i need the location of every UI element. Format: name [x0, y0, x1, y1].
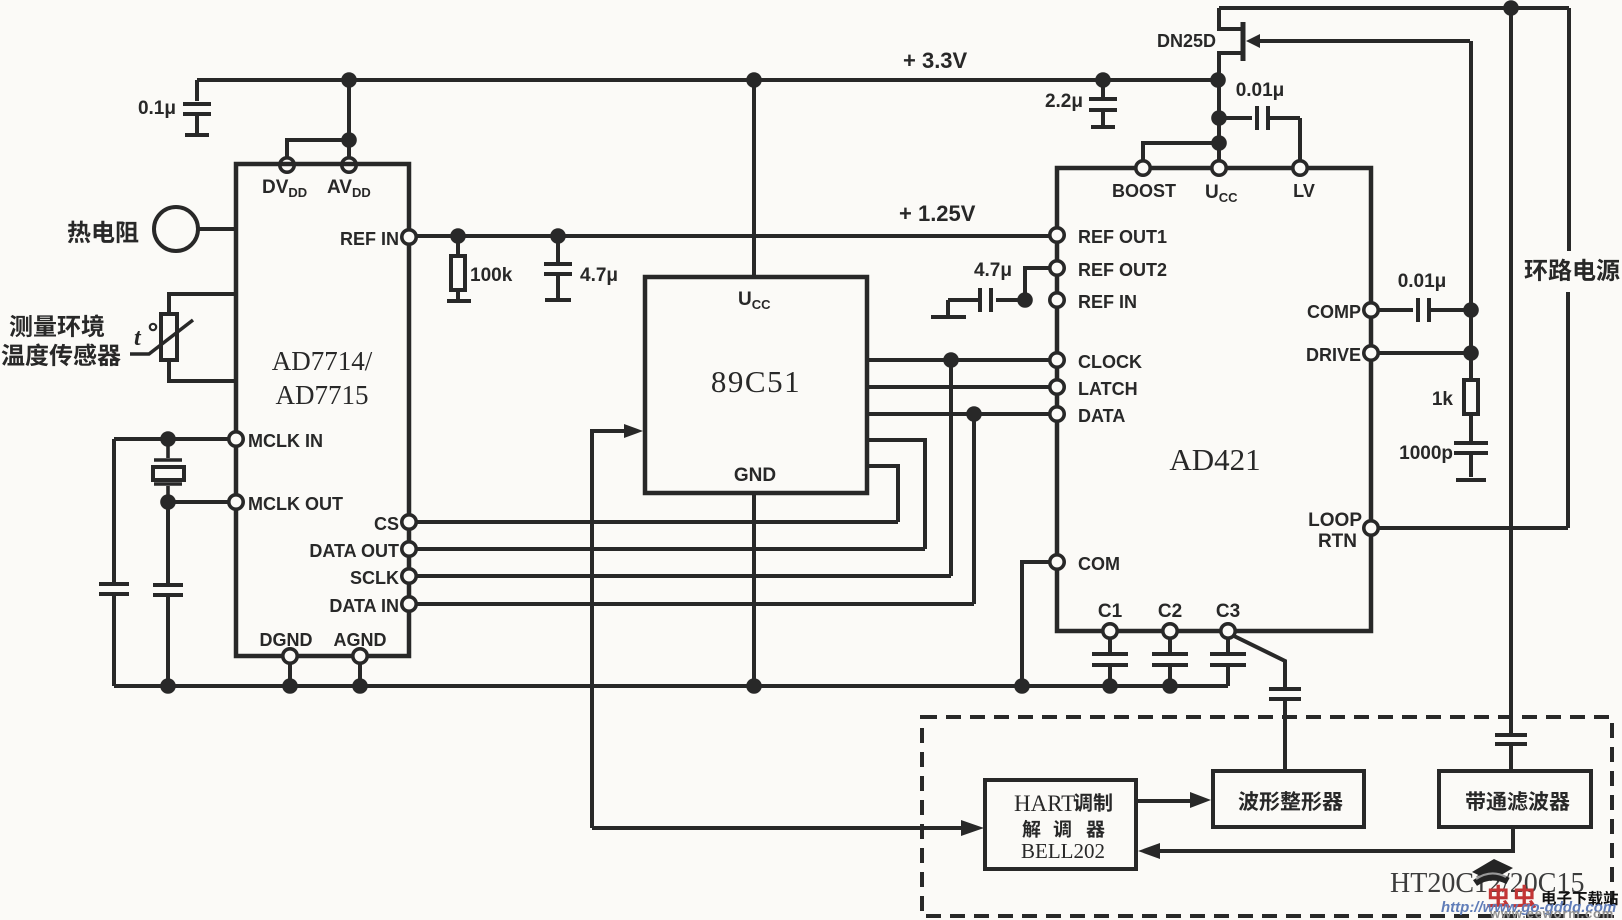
svg-text:BOOST: BOOST: [1112, 181, 1176, 201]
arrowhead into waveshaper: [1190, 792, 1211, 808]
capacitor right load cap: [153, 502, 183, 686]
wire REF OUT2 bracket: [1025, 268, 1050, 300]
svg-text:1000p: 1000p: [1399, 443, 1453, 464]
wire +1.25V reference row: [417, 234, 1050, 238]
wire AGND stub: [358, 664, 362, 686]
pin DGND: [283, 649, 297, 663]
IC 89C51 box: [645, 277, 867, 493]
junction 3.3V/2.2u: [1095, 72, 1111, 88]
svg-text:HART: HART: [1014, 791, 1075, 816]
pin C2: [1163, 624, 1177, 638]
capacitor 0.1u with ground: [183, 80, 211, 135]
pin DVDD: [280, 158, 294, 172]
dashed HART block: [922, 717, 1612, 916]
capacitor 4.7u REF IN with ground: [931, 288, 1025, 317]
pin Ucc AD421: [1212, 161, 1226, 175]
wire MCLK IN: [114, 437, 228, 441]
svg-text:0.1μ: 0.1μ: [138, 98, 176, 119]
wire 89C51 to CS: [867, 466, 898, 522]
svg-text:RTN: RTN: [1318, 531, 1357, 552]
junction gnd COM: [1014, 678, 1030, 694]
label 带通滤波器: [1466, 791, 1570, 811]
thermistor diagonal: [130, 320, 193, 354]
junction gnd C1: [1102, 678, 1118, 694]
junction 3.3V/89C51 Ucc: [746, 72, 762, 88]
svg-text:LATCH: LATCH: [1078, 379, 1138, 399]
wire SCLK riser: [949, 360, 953, 576]
wire DATA row: [867, 412, 1050, 416]
svg-text:GND: GND: [734, 465, 776, 486]
resistor 100k leads+gnd: [447, 236, 471, 301]
sensor 热电阻 circle: [154, 207, 198, 251]
junction AVDD bracket: [341, 132, 357, 148]
IC AD7714/AD7715 box: [236, 164, 409, 656]
svg-text:t: t: [134, 325, 142, 351]
svg-text:www.eeworm.com: www.eeworm.com: [1489, 906, 1614, 920]
wire LATCH row: [867, 385, 1050, 389]
transistor DN25D leads: [1219, 8, 1241, 78]
wire+capacitor C3 to waveshaper: [1234, 636, 1301, 771]
capacitor 0.01u Ucc-LV: [1219, 106, 1300, 161]
svg-text:DN25D: DN25D: [1157, 31, 1216, 51]
svg-text:REF OUT1: REF OUT1: [1078, 227, 1167, 247]
arrowhead into 89C51: [624, 424, 643, 438]
wire gate riser: [1469, 41, 1473, 380]
box bandpass filter: [1439, 771, 1591, 827]
wire COM to ground: [1022, 562, 1050, 686]
crystal X1 body: [153, 467, 184, 480]
wire DATA OUT row: [417, 547, 925, 551]
svg-text:DATA: DATA: [1078, 406, 1125, 426]
pin SCLK: [402, 569, 416, 583]
wire LOOP RTN to rail: [1378, 526, 1568, 530]
label 环路电源: [1525, 259, 1620, 282]
wire left cap upper: [112, 439, 116, 584]
svg-text:+ 3.3V: + 3.3V: [903, 48, 968, 73]
pin DATA OUT: [402, 542, 416, 556]
wire top loop rail: [1219, 6, 1569, 10]
junction DATA/DATA IN: [966, 406, 982, 422]
pin COM: [1050, 555, 1064, 569]
pin REF OUT2: [1050, 261, 1064, 275]
pin C3: [1221, 624, 1235, 638]
svg-text:REF OUT2: REF OUT2: [1078, 260, 1167, 280]
pin AVDD: [342, 158, 356, 172]
wire to HART modem: [592, 826, 961, 830]
wire SCLK row: [417, 574, 951, 578]
svg-text:DRIVE: DRIVE: [1306, 345, 1361, 365]
capacitor 1000p with ground: [1454, 414, 1488, 480]
logo 虫 1: [1487, 885, 1510, 909]
svg-text:DVDD: DVDD: [262, 177, 307, 200]
logo graduation cap: [1472, 859, 1513, 881]
svg-text:AGND: AGND: [334, 630, 387, 650]
wire+capacitor bandpass feed: [1495, 8, 1527, 771]
crystal X1 leads: [154, 443, 182, 502]
svg-text:LOOP: LOOP: [1308, 510, 1362, 531]
wire DRIVE row: [1378, 351, 1471, 355]
capacitor C2: [1152, 639, 1188, 665]
svg-text:DATA IN: DATA IN: [329, 596, 399, 616]
svg-text:MCLK OUT: MCLK OUT: [248, 494, 343, 514]
pin MCLK OUT: [229, 495, 243, 509]
pin DATA: [1050, 407, 1064, 421]
wire C2 gnd: [1168, 667, 1172, 686]
junction COMP: [1463, 302, 1479, 318]
svg-text:MCLK IN: MCLK IN: [248, 431, 323, 451]
label 测量环境: [10, 314, 104, 337]
wire C1 gnd: [1108, 667, 1112, 686]
svg-text:+ 1.25V: + 1.25V: [899, 201, 976, 226]
box waveshaper: [1213, 771, 1364, 827]
pin REF IN left: [402, 230, 416, 244]
junction REF IN cap: [1017, 292, 1033, 308]
wire +3.3V rail: [197, 78, 1218, 82]
junction top rail: [1503, 0, 1519, 16]
wire 89C51 Ucc supply: [752, 80, 756, 277]
junction BOOST bracket: [1211, 135, 1227, 151]
pin LATCH: [1050, 380, 1064, 394]
label 热电阻: [68, 221, 138, 244]
wire C3 gnd: [1226, 667, 1230, 686]
junction CLOCK/SCLK: [943, 352, 959, 368]
pin REF IN AD421: [1050, 293, 1064, 307]
pin CS: [402, 515, 416, 529]
svg-text:1k: 1k: [1432, 389, 1454, 410]
junction Ucc cap: [1211, 110, 1227, 126]
svg-text:LV: LV: [1293, 181, 1315, 201]
svg-text:AD7714/: AD7714/: [272, 346, 373, 376]
arrowhead DN25D gate: [1246, 34, 1260, 48]
pin BOOST: [1136, 161, 1150, 175]
pin AGND: [353, 649, 367, 663]
junction gnd 89C51: [746, 678, 762, 694]
junction 3.3V/DN25D source: [1210, 72, 1226, 88]
capacitor left load cap: [99, 584, 129, 686]
junction crystal top: [160, 431, 176, 447]
IC AD421 box: [1057, 168, 1371, 631]
logo 虫 2: [1513, 885, 1536, 909]
wire bandpass return: [1160, 827, 1513, 851]
svg-text:4.7μ: 4.7μ: [580, 265, 618, 286]
junction gnd C2: [1162, 678, 1178, 694]
label 解: [1022, 820, 1040, 838]
arrowhead into HART: [1138, 843, 1160, 859]
junction DRIVE: [1463, 345, 1479, 361]
svg-text:DGND: DGND: [260, 630, 313, 650]
svg-text:C1: C1: [1098, 601, 1123, 622]
label 调: [1054, 820, 1071, 838]
svg-text:CLOCK: CLOCK: [1078, 352, 1142, 372]
wire right rail upper: [1567, 8, 1571, 251]
thermistor body: [161, 314, 177, 360]
pin CLOCK: [1050, 353, 1064, 367]
svg-text:DATA OUT: DATA OUT: [309, 541, 399, 561]
svg-text:89C51: 89C51: [711, 364, 801, 399]
svg-text:UCC: UCC: [738, 289, 771, 312]
junction 100k: [450, 228, 466, 244]
pin DRIVE: [1364, 346, 1378, 360]
arrowhead into HART box: [961, 820, 984, 836]
junction gnd AGND: [352, 678, 368, 694]
wire thermistor loop: [169, 294, 236, 381]
svg-text:AVDD: AVDD: [327, 177, 371, 200]
capacitor 2.2u with ground: [1089, 80, 1117, 127]
pin LV: [1293, 161, 1307, 175]
wire DGND stub: [288, 664, 292, 686]
wire HART link riser: [592, 431, 624, 828]
wire ground rail: [114, 684, 1228, 688]
pin COMP: [1364, 303, 1378, 317]
label 温度传感器: [2, 343, 121, 366]
box HART modem: [985, 780, 1136, 869]
pin REF OUT1: [1050, 228, 1064, 242]
wire MCLK OUT: [168, 500, 228, 504]
wire DATA IN riser: [972, 414, 976, 604]
svg-text:AD421: AD421: [1169, 442, 1260, 477]
svg-text:BELL202: BELL202: [1021, 839, 1105, 863]
junction gnd DGND: [282, 678, 298, 694]
svg-text:C2: C2: [1158, 601, 1182, 622]
svg-text:0.01μ: 0.01μ: [1236, 80, 1285, 101]
svg-text:SCLK: SCLK: [350, 568, 399, 588]
label 器: [1086, 821, 1104, 838]
svg-text:0.01μ: 0.01μ: [1398, 271, 1447, 292]
pin MCLK IN: [229, 432, 243, 446]
wire BOOST bracket: [1143, 143, 1219, 161]
label 电子下载站: [1543, 891, 1618, 906]
wire DVDD-AVDD bracket: [287, 80, 349, 158]
pin C1: [1103, 624, 1117, 638]
resistor 100k body: [451, 256, 465, 290]
wire CLOCK row: [867, 358, 1050, 362]
capacitor C3: [1210, 639, 1246, 665]
wire DATA IN row: [417, 602, 974, 606]
svg-text:REF IN: REF IN: [1078, 292, 1137, 312]
svg-text:REF IN: REF IN: [340, 229, 399, 249]
transistor DN25D channel bar: [1241, 22, 1246, 61]
wire 89C51 GND: [752, 493, 756, 686]
wire right rail lower: [1566, 292, 1570, 528]
svg-text:4.7μ: 4.7μ: [974, 260, 1012, 281]
pin DATA IN: [402, 597, 416, 611]
junction crystal bottom: [160, 494, 176, 510]
pin LOOP RTN: [1364, 521, 1378, 535]
svg-text:CS: CS: [374, 514, 399, 534]
label 波形整形器: [1239, 791, 1343, 811]
capacitor C1: [1092, 639, 1128, 665]
resistor 1k body: [1464, 380, 1478, 414]
wire Ucc drop: [1217, 80, 1221, 161]
wire HART to waveshaper: [1136, 799, 1190, 803]
wire 89C51 to DATA OUT: [867, 440, 925, 549]
svg-text:100k: 100k: [470, 265, 513, 286]
junction gnd crystal: [160, 678, 176, 694]
svg-text:2.2μ: 2.2μ: [1045, 91, 1083, 112]
svg-text:COM: COM: [1078, 554, 1120, 574]
junction 4.7u: [550, 228, 566, 244]
wire CS row: [417, 520, 898, 524]
capacitor 0.01u COMP: [1378, 298, 1471, 322]
svg-text:COMP: COMP: [1307, 302, 1361, 322]
wire DN25D gate: [1258, 39, 1470, 43]
junction 3.3V/AVDD: [341, 72, 357, 88]
svg-text:AD7715: AD7715: [276, 380, 369, 410]
wire RTD to AD7714: [198, 227, 236, 231]
svg-text:C3: C3: [1216, 601, 1240, 622]
svg-text:UCC: UCC: [1205, 182, 1238, 205]
capacitor 4.7u left: [544, 236, 572, 300]
